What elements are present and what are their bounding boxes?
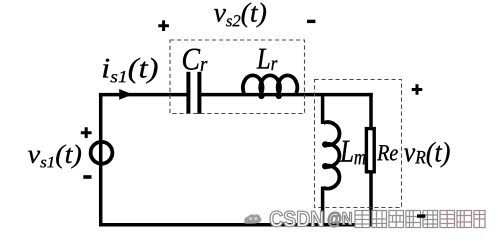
wire: left vertical branch through source bbox=[99, 95, 103, 227]
inductor L_r coil (3 loops) bbox=[243, 75, 297, 93]
wire: L_m branch top lead bbox=[321, 93, 325, 124]
wire: bottom horizontal return bbox=[99, 223, 373, 227]
source plus sign bbox=[81, 127, 92, 138]
plus sign v_s2 bbox=[158, 20, 169, 31]
label Re bbox=[377, 145, 398, 160]
label v_R(t) bbox=[404, 142, 450, 168]
label C_r bbox=[183, 49, 207, 71]
dashed box v_s2 bbox=[170, 40, 305, 114]
label L_m bbox=[340, 141, 365, 165]
watermark text at-N bbox=[328, 212, 352, 227]
minus sign v_R bbox=[417, 214, 425, 217]
inductor L_m junction dots bbox=[322, 141, 328, 147]
label i_s1(t) bbox=[103, 58, 158, 84]
watermark logo blob bbox=[244, 214, 261, 223]
wire: right vertical branch upper lead to Re bbox=[369, 93, 373, 130]
wire: right vertical branch lower lead from Re bbox=[369, 171, 373, 227]
wire: L_m branch bottom lead bbox=[321, 187, 325, 227]
dashed box load bbox=[315, 80, 402, 208]
watermark logo inner marks bbox=[249, 217, 252, 220]
watermark hanzi glyph boxes bbox=[355, 211, 485, 228]
current arrow head i_s1 bbox=[119, 89, 133, 100]
capacitor C_r left plate bbox=[186, 72, 190, 114]
watermark group bbox=[244, 211, 485, 228]
capacitor C_r right plate bbox=[197, 72, 201, 114]
label v_s1(t) bbox=[28, 145, 81, 169]
label L_r bbox=[257, 49, 278, 70]
source minus sign bbox=[83, 175, 91, 179]
plus sign v_R bbox=[412, 84, 423, 95]
minus sign v_s2 bbox=[307, 20, 315, 23]
wire: top horizontal, capacitor to right corner bbox=[201, 93, 373, 97]
source v_s1 circle bbox=[91, 142, 113, 164]
inductor L_r junction dots bbox=[258, 93, 264, 99]
watermark text CSDN bbox=[270, 211, 323, 227]
inductor L_m coil (3 loops, bulge right) bbox=[324, 122, 340, 188]
wire: top horizontal, source to capacitor left plate bbox=[99, 93, 187, 97]
label v_s2(t) bbox=[214, 3, 266, 28]
resistor Re body bbox=[366, 129, 374, 172]
